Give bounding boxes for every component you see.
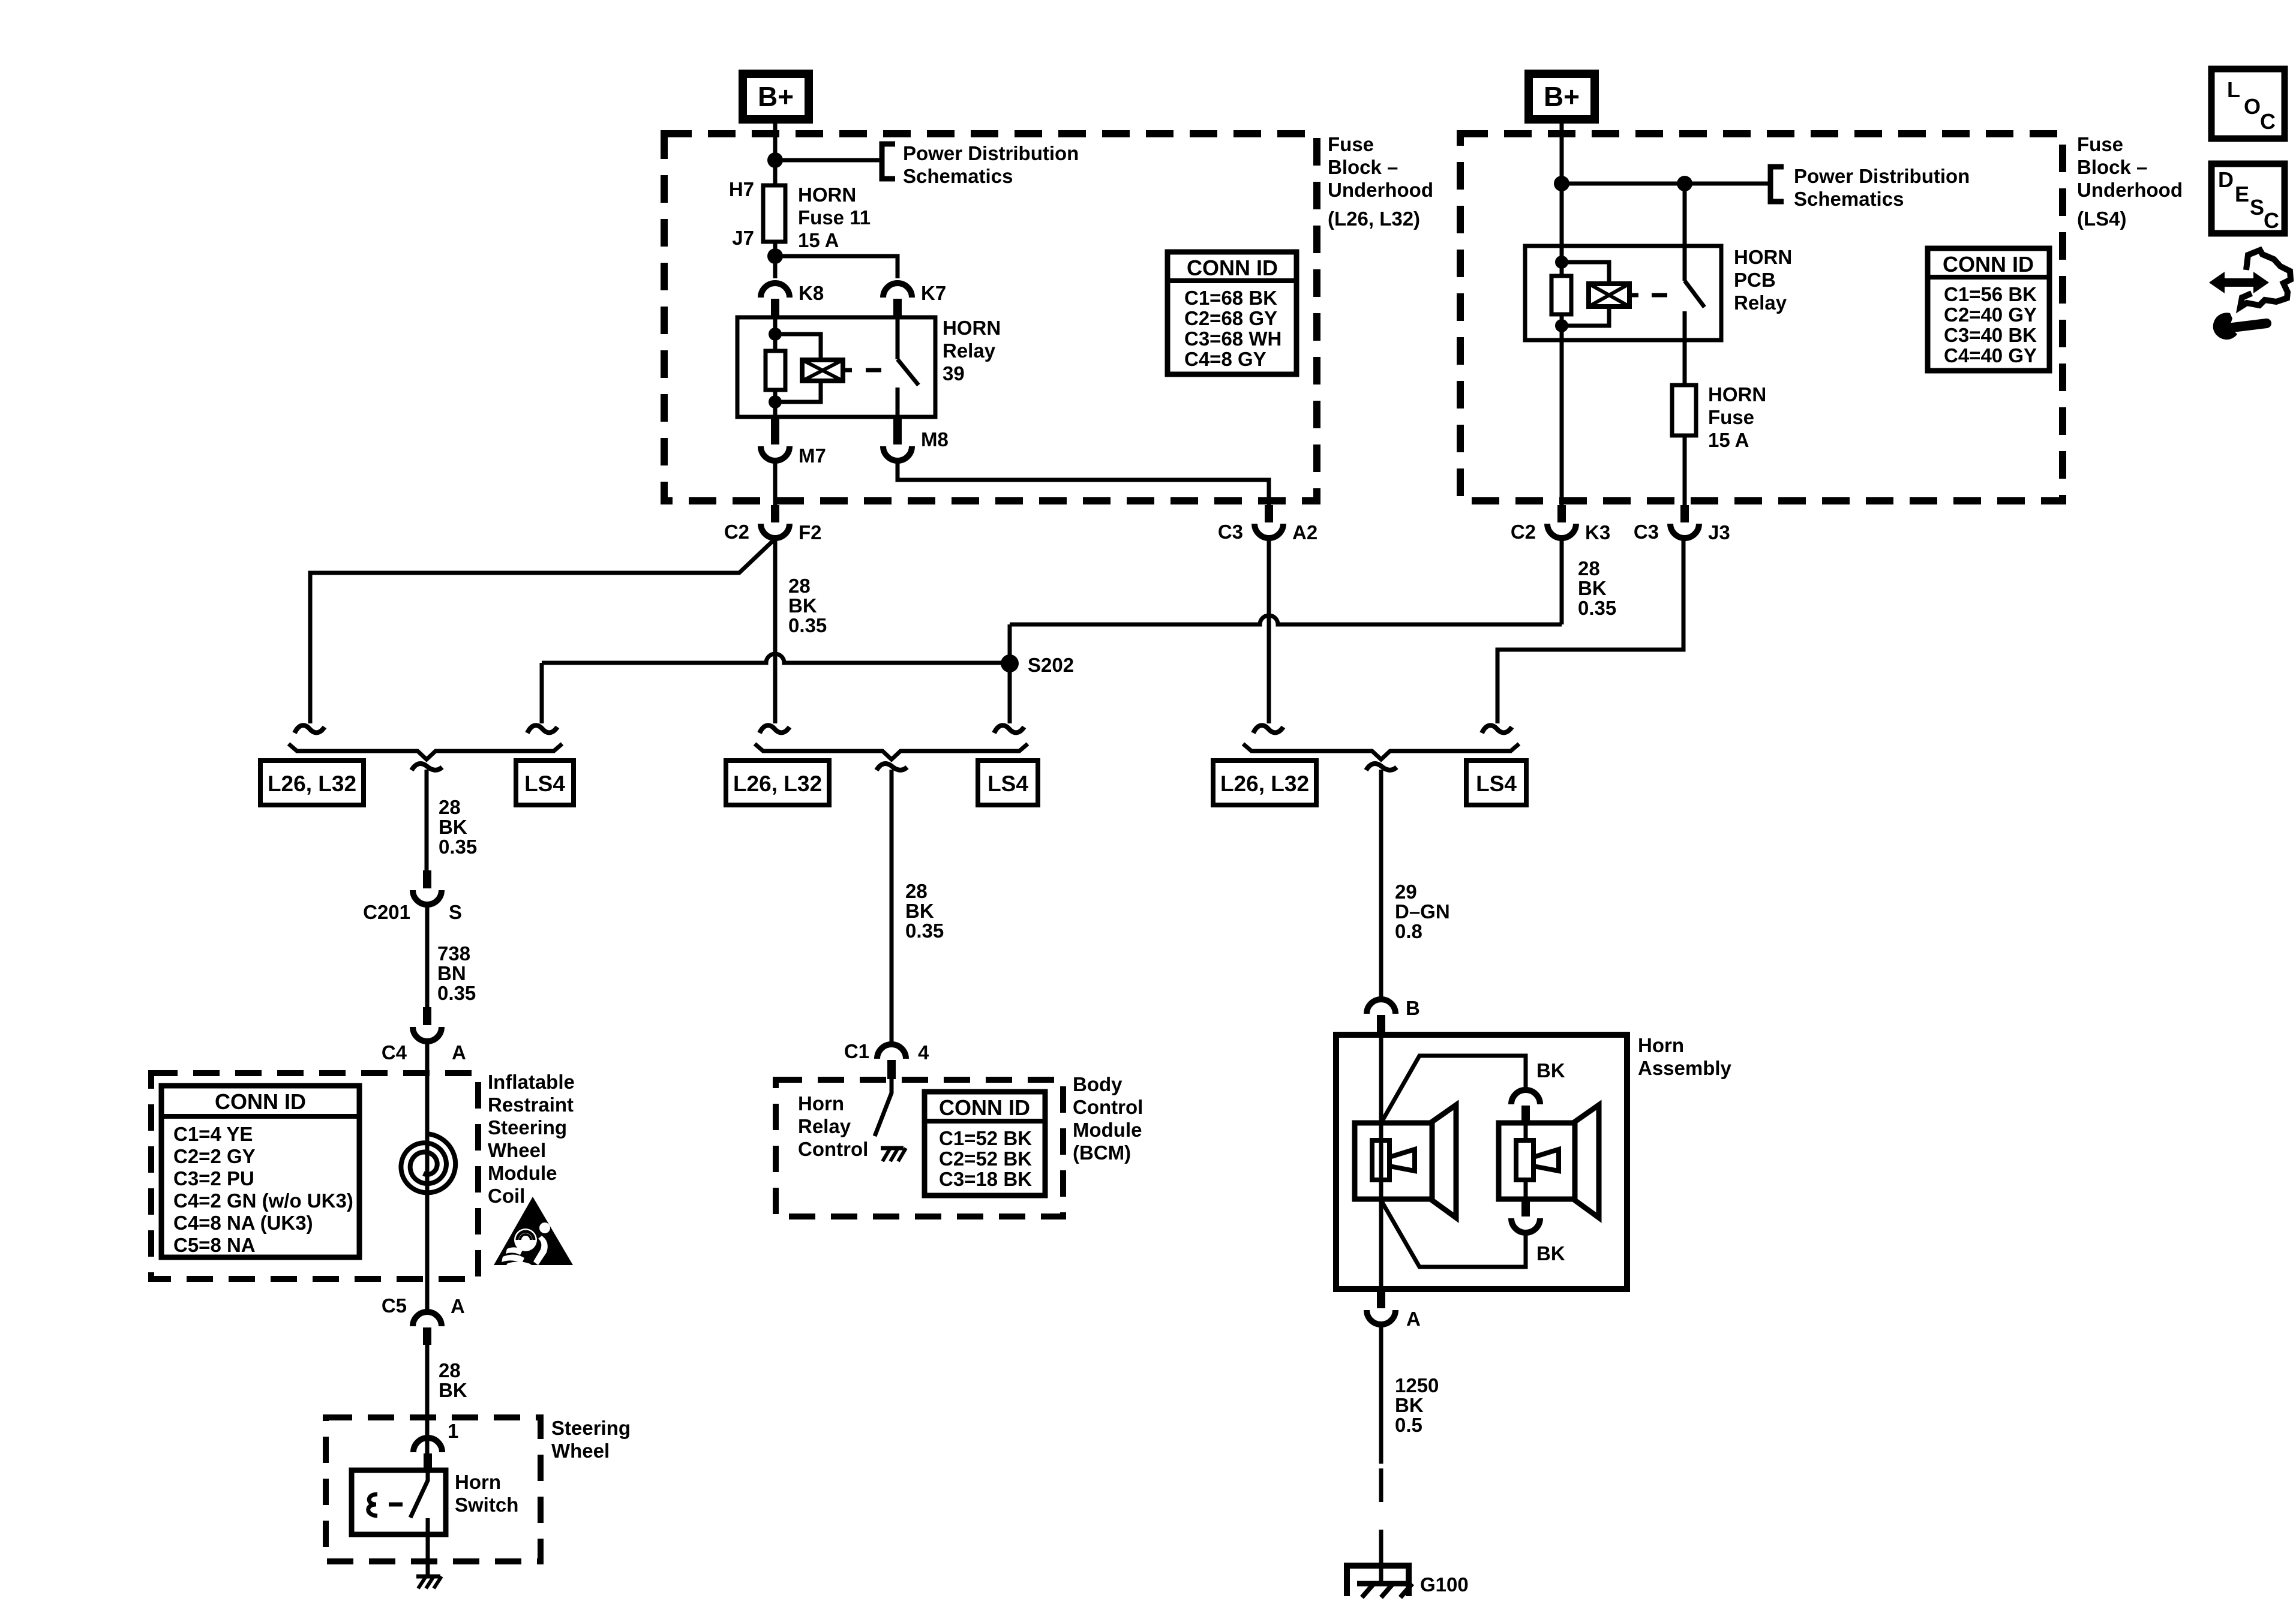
label: 29 D-GN 0.8 [1395,881,1450,942]
label: 28 BK 0.35 (K3 wire) [1578,557,1616,619]
svg-text:L26, L32: L26, L32 [1220,771,1309,796]
connector C3 A2 [1218,505,1317,543]
svg-text:K3: K3 [1585,521,1610,543]
label: Steering Wheel [551,1417,631,1462]
wire: jumper to right horn (bottom) [1381,1200,1526,1267]
harness hook (group2 right) [994,725,1024,733]
wire: main through horn assembly [1379,1035,1383,1289]
wire: M7 to C2 F2 [773,461,778,505]
harness hook below brace group2 [877,764,907,770]
junction node on B+ feed [767,152,783,168]
wire: left drop from S202 bus [540,663,544,723]
relay (right) node upper [1555,256,1568,269]
svg-text:(LS4): (LS4) [2077,208,2127,230]
connector ID table (coil module) [161,1086,359,1257]
harness hook below brace group1 [412,764,442,770]
svg-text:C3=2 PU: C3=2 PU [173,1167,254,1190]
svg-text:HORN: HORN [943,317,1001,339]
wire: diagonal from C2 F2 to left branch [310,540,773,723]
splice S202 [1001,654,1074,676]
svg-text:K7: K7 [921,282,946,304]
svg-text:Fuse: Fuse [1708,406,1754,428]
relay coil branch wires [775,334,821,402]
svg-text:L26, L32: L26, L32 [268,771,356,796]
svg-text:738: 738 [437,942,470,965]
BCM internal ground [881,1148,906,1161]
relay (right) coil element [1589,284,1629,307]
wire: switch-side vertical into relay [1683,184,1687,246]
horn switch lower contact [426,1518,430,1534]
svg-text:C3=40 BK: C3=40 BK [1944,324,2037,346]
relay (right) actuator dashes [1629,293,1667,298]
label: Horn Assembly [1638,1034,1732,1079]
svg-text:B: B [1406,997,1420,1019]
svg-text:(L26, L32): (L26, L32) [1328,208,1420,230]
steering wheel dashed box [326,1417,541,1561]
svg-text:C4=2 GN (w/o UK3): C4=2 GN (w/o UK3) [173,1190,353,1212]
wire: dashed ground segment [1379,1468,1383,1562]
relay node upper [769,328,782,341]
wire: S202 vertical [1008,624,1012,723]
harness hook (group3 left) [1253,725,1283,733]
svg-text:15 A: 15 A [1708,429,1749,451]
svg-text:4: 4 [918,1041,929,1064]
svg-text:28: 28 [1578,557,1600,579]
svg-text:BK: BK [1395,1394,1424,1416]
svg-text:A: A [451,1295,465,1317]
svg-text:C1: C1 [844,1040,869,1062]
wire: fuse to K8 [773,242,778,278]
svg-text:Steering: Steering [551,1417,631,1439]
svg-text:C4=40 GY: C4=40 GY [1944,344,2037,367]
svg-text:C1=68 BK: C1=68 BK [1184,287,1277,309]
label: Horn Switch [455,1471,518,1516]
svg-text:S: S [449,901,462,923]
component locator arrow-wrench icon [2209,250,2291,340]
wire: fuse to J3 connector [1683,435,1687,505]
harness hook (group2 left) [760,725,790,733]
wire: C201 to C4 (738 BN 0.35) [425,905,430,1007]
svg-text:0.35: 0.35 [905,920,944,942]
option brace group1 [289,744,562,759]
wire: S202 to K3 with hop over A2 wire [1010,615,1562,624]
wire to power distribution callout (right) [1562,182,1770,186]
svg-text:C2=40 GY: C2=40 GY [1944,304,2037,326]
svg-text:S: S [2250,195,2264,220]
connector BK (right horn top) [1511,1090,1540,1123]
svg-text:A: A [452,1041,466,1064]
option box LS4 (group1) [516,761,574,805]
svg-text:C: C [2260,109,2276,134]
junction node switch branch [1677,176,1692,191]
svg-text:J7: J7 [732,227,754,249]
wire: horn A to ground (1250 BK 0.5) [1379,1324,1383,1464]
body control module dashed box [776,1080,1063,1216]
label: 28 BK 0.35 (F2 wire) [788,575,827,636]
connector pin 1 (horn switch) [413,1420,458,1471]
svg-text:(BCM): (BCM) [1073,1142,1131,1164]
svg-text:C1=4 YE: C1=4 YE [173,1123,253,1145]
wire: M8 to C3 A2 [898,461,1269,505]
svg-text:C3=68 WH: C3=68 WH [1184,328,1281,350]
wire: C4 through coil module [425,1041,430,1312]
svg-text:G100: G100 [1420,1573,1469,1596]
svg-text:L: L [2227,77,2240,102]
label: Inflatable Restraint Steering Wheel Module Coil [488,1071,575,1207]
connector BK (right horn bottom) [1511,1199,1540,1233]
wire: group3 down to horn B [1379,770,1383,998]
svg-text:29: 29 [1395,881,1417,903]
svg-text:Horn: Horn [455,1471,501,1493]
svg-text:0.35: 0.35 [439,836,477,858]
inflatable restraint steering wheel module coil dashed box [151,1073,478,1279]
option box L26,L32 (group2) [726,761,829,805]
svg-text:Relay: Relay [1734,292,1787,314]
svg-text:Body: Body [1073,1073,1123,1095]
svg-text:HORN: HORN [1734,246,1792,268]
svg-text:Power Distribution: Power Distribution [1794,165,1970,187]
svg-text:Module: Module [1073,1119,1142,1141]
chassis ground (steering wheel) [416,1576,442,1588]
horn switch box [352,1470,446,1534]
svg-text:BK: BK [788,594,817,617]
harness hook (group3 right) [1482,725,1512,733]
option brace group3 [1243,744,1519,759]
relay (right) resistor [1551,276,1571,314]
power distribution bracket [882,144,895,179]
connector C201 S [363,870,462,923]
label: HORN PCB Relay [1734,246,1792,314]
svg-text:CONN ID: CONN ID [939,1095,1030,1120]
option box LS4 (group2) [978,761,1038,805]
svg-text:BN: BN [437,962,466,984]
svg-text:C3: C3 [1218,521,1243,543]
svg-text:K8: K8 [799,282,824,304]
svg-text:LS4: LS4 [1476,771,1517,796]
relay resistor [766,351,785,390]
svg-text:Control: Control [798,1138,868,1160]
harness hook (group1 left) [295,725,325,733]
junction node right B+ feed [1554,176,1569,191]
relay coil-side wire lower [773,390,778,417]
connector C5 A [382,1294,465,1345]
option box LS4 (group3) [1466,761,1526,805]
svg-text:C2: C2 [724,521,749,543]
svg-text:0.5: 0.5 [1395,1414,1422,1436]
label: HORN Relay 39 [943,317,1001,385]
connector pin K8 [761,282,824,317]
power distribution bracket (right) [1770,167,1784,202]
option box L26,L32 (group3) [1213,761,1316,805]
label: Fuse Block - Underhood (L26, L32) [1328,133,1433,230]
connector pin K7 [883,282,946,317]
wire: group1 down to C201 [425,770,429,870]
label: Power Distribution Schematics (right) [1794,165,1970,210]
svg-text:C5: C5 [382,1294,407,1317]
option brace group2 [755,744,1028,759]
fuse block underhood (LS4) dashed box [1460,134,2063,501]
svg-text:Fuse: Fuse [2077,133,2123,155]
svg-text:CONN ID: CONN ID [215,1089,306,1114]
svg-text:C3=18 BK: C3=18 BK [939,1168,1032,1190]
svg-text:E: E [2235,182,2249,206]
relay (right) switch contact [1685,246,1704,340]
label: 1250 BK 0.5 [1395,1374,1439,1436]
svg-text:C2=2 GY: C2=2 GY [173,1145,256,1167]
svg-text:C2=52 BK: C2=52 BK [939,1148,1032,1170]
svg-text:0.35: 0.35 [1578,597,1616,619]
svg-text:L26, L32: L26, L32 [733,771,822,796]
svg-text:Schematics: Schematics [903,165,1013,187]
label: Horn Relay Control [798,1092,868,1160]
label: 28 BK [439,1359,467,1401]
wire: relay switch to horn fuse [1683,340,1687,385]
connector pin M8 [883,418,949,461]
svg-text:Module: Module [488,1162,557,1184]
svg-text:BK: BK [905,900,934,922]
wire: K3 down to S202 bus [1560,538,1564,624]
wire: B+ down into relay (right) [1560,119,1564,246]
junction node below fuse [767,248,783,264]
svg-text:Coil: Coil [488,1185,525,1207]
connector pin M7 [761,418,826,467]
fuse HORN Fuse 15A (right) [1672,383,1766,451]
power symbol B+ (left) [743,74,809,119]
svg-text:H7: H7 [729,178,754,200]
svg-text:S202: S202 [1028,654,1074,676]
ground G100 [1347,1562,1469,1597]
connector C3 J3 [1634,505,1730,543]
svg-text:28: 28 [439,1359,461,1381]
svg-text:Fuse 11: Fuse 11 [798,206,871,229]
svg-text:PCB: PCB [1734,269,1776,291]
svg-text:Assembly: Assembly [1638,1057,1732,1079]
fuse block underhood (L26,L32) dashed box [664,134,1317,501]
svg-text:Switch: Switch [455,1494,518,1516]
relay (right) node lower [1555,319,1568,332]
DESC legend box [2211,164,2285,233]
horn assembly box [1336,1035,1627,1289]
svg-text:Control: Control [1073,1096,1143,1118]
svg-text:D: D [2218,167,2234,192]
svg-text:HORN: HORN [1708,383,1766,405]
svg-text:LS4: LS4 [988,771,1028,796]
connector C1 pin 4 (BCM) [844,1040,929,1079]
svg-text:C4=8 NA (UK3): C4=8 NA (UK3) [173,1212,313,1234]
relay switch contact [898,317,919,417]
svg-text:0.35: 0.35 [788,614,827,636]
svg-text:C4: C4 [382,1041,407,1064]
harness hook below brace group3 [1366,764,1397,770]
connector ID table (right fuse block) [1928,248,2049,371]
connector ID table (left fuse block) [1167,252,1296,374]
svg-text:A: A [1406,1308,1421,1330]
connector pin A (horn assembly) [1367,1289,1421,1330]
connector ID table (BCM) [925,1092,1045,1196]
LOC legend box [2211,69,2285,139]
svg-text:Relay: Relay [943,340,996,362]
svg-text:Steering: Steering [488,1116,567,1139]
svg-text:Inflatable: Inflatable [488,1071,575,1093]
svg-text:J3: J3 [1708,521,1730,543]
wire: C5 to horn switch (28 BK) [425,1345,430,1471]
svg-text:BK: BK [439,816,467,838]
svg-text:M7: M7 [799,444,826,467]
svg-text:Underhood: Underhood [2077,179,2183,201]
label: 28 BK 0.35 (steering column feed) [439,796,477,858]
svg-text:28: 28 [439,796,461,818]
svg-text:BK: BK [1578,577,1607,599]
relay coil element [802,360,843,381]
relay coil-side wire [773,317,778,351]
harness hook (group1 right) [527,725,557,733]
svg-text:C4=8 GY: C4=8 GY [1184,348,1266,370]
svg-text:1250: 1250 [1395,1374,1439,1396]
wire: jumper to right horn (top) [1381,1056,1526,1123]
relay (right) coil-side wire lower [1560,314,1564,340]
connector C2 K3 [1511,505,1610,543]
svg-text:C2=68 GY: C2=68 GY [1184,307,1277,329]
clockspring coil spiral [401,1134,455,1193]
label: Power Distribution Schematics (left) [903,142,1079,187]
svg-text:F2: F2 [799,521,822,543]
svg-text:1: 1 [448,1420,458,1442]
wire: A2 down to option brace [1267,538,1271,723]
svg-text:C2: C2 [1511,521,1536,543]
svg-text:0.8: 0.8 [1395,920,1422,942]
connector pin B (horn assembly) [1367,997,1420,1035]
svg-text:BK: BK [439,1379,467,1401]
wire: branch to K7 [775,256,898,278]
svg-text:Schematics: Schematics [1794,188,1904,210]
fuse HORN Fuse 11 15A [729,178,871,251]
svg-text:BK: BK [1536,1242,1565,1264]
relay (right) coil branch wires [1562,262,1609,326]
wire: J3 down and left to option brace [1497,538,1683,723]
svg-text:C201: C201 [363,901,410,923]
wire: B+ to fuse H7 [773,119,778,185]
relay (right) coil-side wire [1560,246,1564,276]
svg-text:C5=8 NA: C5=8 NA [173,1234,256,1256]
svg-text:Wheel: Wheel [488,1139,546,1161]
wire: F2 down to option brace (28 BK 0.35) [773,538,778,723]
svg-text:Underhood: Underhood [1328,179,1433,201]
label: Body Control Module (BCM) [1073,1073,1143,1164]
svg-text:Restraint: Restraint [488,1094,574,1116]
wire: splice bus S202 horizontal with hop over F2 wire [542,654,1010,663]
svg-text:CONN ID: CONN ID [1187,256,1278,280]
svg-text:15 A: 15 A [798,229,839,251]
relay node lower [769,395,782,408]
connector C2 F2 [724,505,822,543]
svg-text:A2: A2 [1292,521,1317,543]
svg-text:B+: B+ [1544,81,1580,112]
wire: horn switch to chassis ground [426,1534,430,1576]
svg-text:C3: C3 [1634,521,1659,543]
svg-text:O: O [2244,94,2261,119]
horn switch blade [410,1471,428,1518]
svg-text:C: C [2264,208,2279,233]
wire to power distribution callout [775,158,882,163]
svg-text:0.35: 0.35 [437,982,476,1004]
label: 28 BK 0.35 (BCM feed) [905,880,944,942]
svg-text:Power Distribution: Power Distribution [903,142,1079,164]
svg-text:C1=52 BK: C1=52 BK [939,1127,1032,1149]
svg-text:D–GN: D–GN [1395,900,1450,923]
wire: group2 down to BCM C1 [890,770,894,1044]
horn relay 39 box [737,317,935,417]
svg-text:M8: M8 [921,428,949,450]
svg-text:28: 28 [905,880,928,902]
svg-text:Block –: Block – [1328,156,1398,178]
right horn speaker [1499,1105,1599,1218]
airbag caution triangle [494,1197,573,1265]
svg-text:LS4: LS4 [524,771,565,796]
svg-text:BK: BK [1536,1059,1565,1082]
connector C4 A [382,1007,466,1064]
left horn speaker [1355,1105,1456,1218]
label: Fuse Block - Underhood (LS4) [2077,133,2183,230]
BCM driver switch blade [875,1079,892,1136]
svg-text:C1=56 BK: C1=56 BK [1944,283,2037,305]
svg-text:28: 28 [788,575,811,597]
svg-text:Horn: Horn [798,1092,844,1115]
horn switch fixed contact [368,1494,377,1516]
horn switch dash link [389,1503,403,1507]
relay actuator dashes [843,368,881,373]
svg-text:Fuse: Fuse [1328,133,1374,155]
svg-text:B+: B+ [758,81,794,112]
svg-text:Horn: Horn [1638,1034,1684,1056]
wire: relay to K3 connector [1560,340,1564,505]
label: 738 BN 0.35 [437,942,476,1004]
horn PCB relay box [1525,246,1721,340]
svg-text:CONN ID: CONN ID [1943,252,2034,277]
svg-text:39: 39 [943,362,965,385]
svg-text:Block –: Block – [2077,156,2147,178]
svg-text:HORN: HORN [798,184,856,206]
svg-text:Wheel: Wheel [551,1440,610,1462]
power symbol B+ (right) [1529,74,1595,119]
svg-text:Relay: Relay [798,1115,851,1137]
option box L26,L32 (group1) [260,761,364,805]
